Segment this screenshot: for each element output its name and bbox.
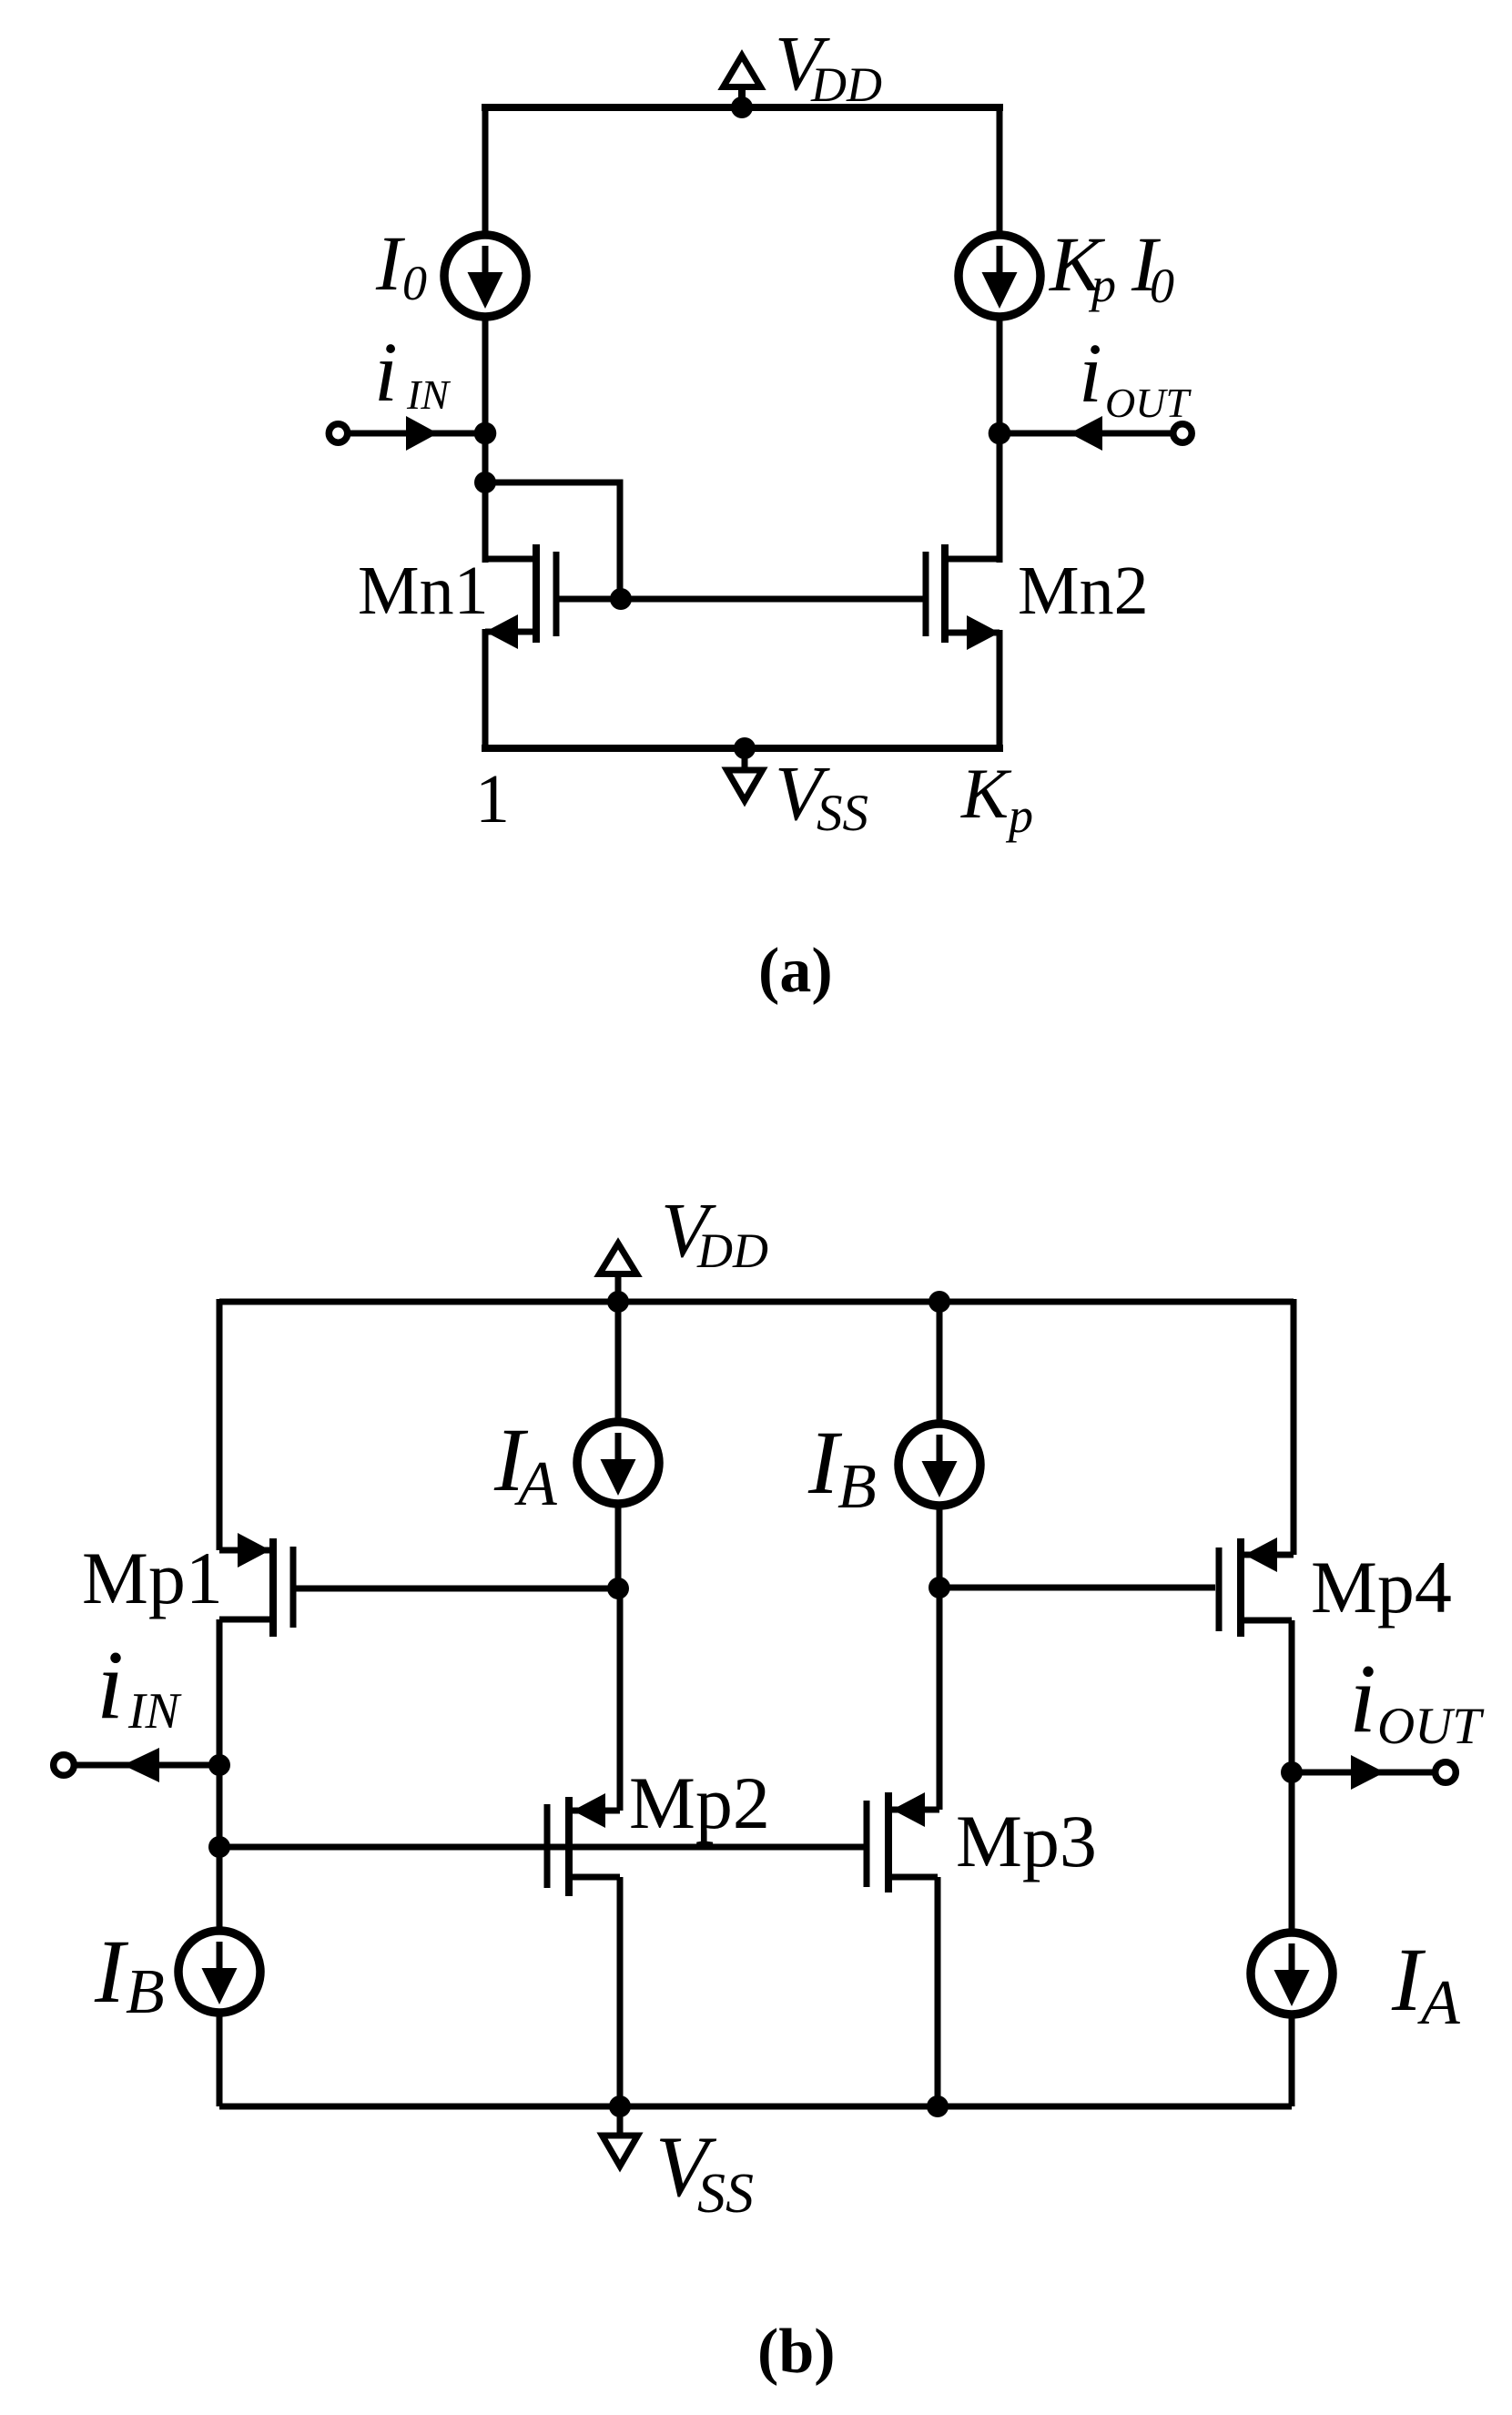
current source KpI0 (a) (959, 235, 1040, 317)
junction dot VSS rail (a) (734, 737, 756, 759)
svg-text:I: I (375, 219, 405, 307)
svg-text:SS: SS (817, 785, 868, 842)
label IB top (b) (807, 1412, 877, 1522)
wire I0 to Mn1 drain (a) (482, 316, 489, 563)
input terminal iIN (b) (54, 1755, 75, 1776)
wire Mp4 drain to output node (b) (1289, 1620, 1295, 1772)
label iOUT (b) (1349, 1645, 1485, 1755)
label VSS (a) (775, 749, 868, 842)
wire gate node to IB source (b) (217, 1847, 223, 1933)
label mirror ratio Kp (a) (960, 754, 1033, 843)
junction dot VDD rail at IA branch (b) (607, 1291, 629, 1313)
label iIN (a) (374, 326, 451, 420)
wire gate rail to Mp2 and Mp3 gates (b) (219, 1844, 864, 1851)
wire feedback input node to gate rail (a) (485, 482, 620, 599)
wire IB top to Mp4 gate node (b) (937, 1505, 943, 1588)
junction dot gate rail node (b) (208, 1836, 230, 1858)
svg-text:Mn2: Mn2 (1018, 553, 1149, 629)
transistor Mn2 (926, 544, 1000, 650)
junction dot Mp1 gate node (b) (607, 1578, 629, 1599)
wire VSS rail (b) (219, 2104, 1292, 2110)
svg-text:OUT: OUT (1105, 380, 1192, 426)
junction dot input node (a) (474, 422, 497, 445)
svg-text:1: 1 (475, 761, 510, 837)
label iIN (b) (96, 1631, 182, 1740)
svg-text:I: I (94, 1921, 129, 2022)
current arrow iIN (a) (406, 416, 438, 451)
transistor Mp1 (219, 1533, 293, 1637)
wire iIN lead (b) (73, 1762, 219, 1769)
wire VSS rail (a) (482, 745, 1003, 752)
junction dot VDD rail at IB branch (b) (929, 1291, 950, 1313)
current arrow iOUT (b) (1351, 1755, 1385, 1790)
label iOUT (a) (1079, 327, 1192, 426)
junction dot Mp4 gate node (b) (929, 1577, 950, 1598)
label VSS (b) (655, 2118, 754, 2225)
junction dot output node (a) (989, 422, 1011, 445)
svg-text:IN: IN (406, 371, 451, 418)
svg-text:A: A (514, 1449, 557, 1519)
svg-text:DD: DD (696, 1223, 768, 1278)
wire iIN lead (a) (347, 431, 485, 437)
label KpI0 (a) (1048, 220, 1174, 313)
wire VDD rail (b) (219, 1299, 1294, 1305)
svg-text:i: i (1349, 1645, 1376, 1753)
transistor Mp4 (1219, 1537, 1294, 1637)
power symbol VSS (b) (603, 2106, 638, 2166)
wire VDD rail to Mp1 source (b) (217, 1299, 223, 1550)
power symbol VDD (a) (724, 56, 761, 107)
wire IB source to VSS rail (b) (217, 2012, 223, 2106)
junction dot input node (b) (208, 1754, 230, 1776)
wire VDD rail to IB top source (b) (937, 1302, 943, 1426)
wire Mp1 drain to input node (b) (217, 1619, 223, 1765)
svg-text:(a): (a) (758, 936, 833, 1006)
wire IA bottom to VSS rail (b) (1289, 2014, 1295, 2106)
svg-text:A: A (1417, 1968, 1460, 2038)
svg-text:Mp3: Mp3 (956, 1800, 1097, 1882)
svg-text:0: 0 (402, 256, 427, 310)
svg-text:Mn1: Mn1 (358, 553, 489, 629)
svg-text:Mp1: Mp1 (82, 1537, 223, 1619)
svg-text:p: p (1005, 788, 1033, 843)
label VDD (b) (661, 1186, 768, 1278)
output terminal iOUT (a) (1173, 424, 1192, 442)
svg-text:B: B (126, 1957, 165, 2027)
wire VDD rail (a) (482, 104, 1003, 111)
svg-text:i: i (374, 326, 398, 420)
svg-text:p: p (1088, 258, 1116, 312)
current source IB bottom left (b) (178, 1931, 260, 2013)
transistor Mn1 (485, 544, 556, 649)
junction dot VDD rail (a) (731, 96, 753, 118)
input terminal iIN (a) (329, 424, 347, 442)
svg-text:K: K (960, 754, 1012, 833)
label VDD (a) (775, 19, 882, 112)
junction dot Mp3 drain at VSS rail (b) (927, 2095, 949, 2117)
wire gate node to Mp1 gate (b) (296, 1586, 618, 1592)
junction dot gate feedback node (a) (474, 472, 496, 493)
output terminal iOUT (b) (1436, 1762, 1456, 1783)
wire KpI0 to Mn2 drain (a) (997, 316, 1003, 563)
svg-text:i: i (1079, 327, 1102, 421)
label IA bottom right (b) (1391, 1929, 1460, 2038)
wire gate node down to Mp3 source (b) (937, 1588, 943, 1810)
transistor Mp2 (547, 1793, 620, 1896)
current source IA bottom right (b) (1251, 1933, 1333, 2014)
svg-text:IN: IN (127, 1683, 182, 1740)
wire Mn2 source to VSS rail (a) (997, 630, 1003, 748)
junction dot VSS rail (b) (609, 2095, 631, 2117)
svg-text:Mp2: Mp2 (629, 1761, 770, 1844)
wire VDD rail to KpI0 source (a) (997, 104, 1003, 236)
wire VDD rail right corner to Mp4 source (b) (1291, 1299, 1297, 1555)
svg-text:i: i (96, 1631, 124, 1740)
wire gate node to Mp4 gate (b) (939, 1585, 1215, 1591)
current source IB top (b) (898, 1424, 980, 1506)
svg-text:SS: SS (697, 2163, 754, 2225)
wire IA source to gate node (b) (615, 1503, 622, 1588)
svg-text:DD: DD (810, 57, 882, 112)
wire VDD rail to IA source (b) (615, 1302, 622, 1425)
svg-text:Mp4: Mp4 (1311, 1546, 1452, 1629)
junction dot output node (b) (1281, 1761, 1303, 1783)
wire Mp2 drain to VSS rail (b) (617, 1877, 624, 2106)
power symbol VSS (a) (727, 748, 763, 801)
wire gate rail Mn1 to Mn2 (a) (559, 596, 924, 603)
svg-text:B: B (837, 1452, 877, 1522)
wire Mp3 drain to VSS rail (b) (935, 1877, 941, 2106)
svg-text:OUT: OUT (1377, 1698, 1485, 1755)
wire iOUT lead (a) (1000, 431, 1173, 437)
current arrow iIN (b) (123, 1748, 159, 1782)
wire input node to gate node (b) (217, 1765, 223, 1847)
current source I0 (a) (444, 235, 526, 317)
label IB bottom left (b) (94, 1921, 165, 2027)
junction dot gate rail (a) (610, 588, 632, 610)
label I0 (a) (375, 219, 427, 310)
label IA top (b) (493, 1409, 557, 1519)
current arrow iOUT (a) (1070, 416, 1102, 451)
wire IA gate node down to Mp2 source (b) (617, 1588, 624, 1811)
wire iOUT lead (b) (1292, 1770, 1436, 1776)
current source IA top (b) (577, 1422, 659, 1504)
svg-text:0: 0 (1150, 259, 1174, 313)
svg-text:(b): (b) (757, 2317, 836, 2387)
wire VDD rail to I0 source (a) (482, 104, 489, 236)
wire output node to IA bottom source (b) (1289, 1772, 1295, 1935)
power symbol VDD (b) (600, 1243, 637, 1302)
wire Mn1 source to VSS rail (a) (482, 629, 489, 748)
transistor Mp3 (867, 1792, 939, 1892)
